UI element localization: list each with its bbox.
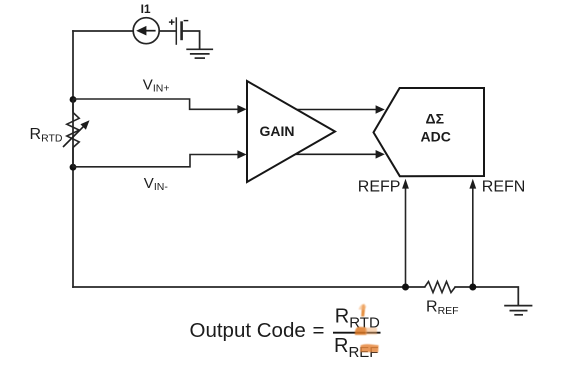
wire VIN-	[73, 155, 239, 167]
svg-text:REFP: REFP	[358, 178, 401, 195]
svg-text:ADC: ADC	[421, 129, 451, 145]
wire VIN+	[73, 99, 239, 109]
formula fraction line	[333, 332, 381, 334]
wire GAIN to ADC bottom	[295, 153, 377, 155]
node junction REFN	[469, 284, 476, 291]
arrow into GAIN (VIN-)	[237, 150, 246, 159]
resistor R_REF	[425, 282, 456, 293]
watermark orange blob 1	[359, 304, 367, 317]
op-amp GAIN	[247, 81, 335, 182]
node junction bottom of R_RTD	[70, 164, 77, 171]
arrow into GAIN (VIN+)	[237, 105, 246, 114]
wire GAIN to ADC top	[297, 109, 378, 111]
ground (battery)	[186, 49, 213, 58]
svg-text:GAIN: GAIN	[260, 123, 295, 139]
node junction REFP	[402, 284, 409, 291]
watermark orange blob 3	[360, 344, 379, 352]
wire current source to battery	[159, 30, 176, 32]
svg-text:I1: I1	[141, 2, 151, 16]
wire R_REF right to ground	[455, 287, 518, 305]
svg-text:ΔΣ: ΔΣ	[426, 111, 444, 127]
wire left vertical	[72, 31, 74, 287]
watermark orange blob 2	[355, 327, 377, 335]
formula Output Code	[190, 319, 325, 342]
variable arrow of R_RTD	[63, 120, 90, 147]
svg-text:Output Code: Output Code	[190, 319, 306, 342]
node junction top of R_RTD	[70, 96, 77, 103]
wire REFP arrow	[405, 188, 407, 288]
ADC block U1	[374, 88, 485, 176]
wire battery to ground stub	[182, 31, 200, 49]
current source I1	[133, 18, 159, 44]
wire bottom horizontal	[73, 286, 425, 288]
svg-text:=: =	[313, 319, 325, 342]
resistor R_RTD	[67, 100, 79, 168]
arrow into ADC bottom	[376, 150, 385, 159]
wire top-left horizontal	[73, 30, 133, 32]
wire REFN arrow	[472, 188, 474, 288]
battery V1	[169, 17, 188, 45]
arrow into ADC top	[376, 105, 385, 114]
ground (bottom right)	[504, 306, 532, 315]
svg-text:REFN: REFN	[482, 178, 526, 195]
